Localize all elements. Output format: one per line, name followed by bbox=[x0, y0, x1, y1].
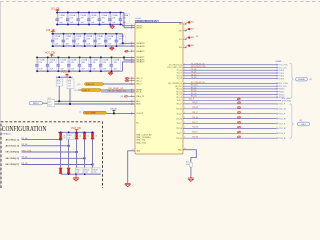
wire column bbox=[92, 139, 94, 167]
wire GND left bbox=[128, 151, 135, 183]
power 1V1_CB bbox=[56, 9, 60, 12]
capacitor C126A bbox=[99, 57, 103, 71]
svg-text:10k: 10k bbox=[95, 136, 98, 138]
wire TXD1 bbox=[183, 72, 278, 74]
junction bbox=[116, 45, 118, 47]
ground left GND pin bbox=[125, 183, 131, 187]
junction bbox=[123, 57, 125, 59]
tag TD1_P bbox=[277, 113, 286, 116]
pin stub LED_1 bbox=[125, 77, 136, 79]
tag RXD1 bbox=[277, 91, 286, 94]
junction bbox=[68, 173, 70, 175]
resistor pull-down 2 bbox=[67, 168, 70, 174]
wire to U100 VDDIO bbox=[124, 13, 135, 28]
capacitor C120A bbox=[35, 57, 39, 71]
svg-text:TD3_M: TD3_M bbox=[192, 137, 198, 139]
DNI mark bbox=[125, 50, 128, 52]
capacitor C106A bbox=[119, 13, 123, 25]
pin stub bbox=[131, 27, 136, 29]
bus brace RGMII bbox=[290, 63, 294, 98]
power flag bbox=[188, 37, 190, 39]
wire config bottom rail bbox=[61, 173, 101, 175]
svg-text:RXD0: RXD0 bbox=[279, 89, 285, 91]
wire rail row1 top bbox=[56, 12, 124, 14]
svg-text:XTAL_TXD: XTAL_TXD bbox=[136, 139, 146, 142]
svg-text:(47): (47) bbox=[74, 90, 78, 92]
wire MDC to U100 bbox=[55, 100, 135, 102]
junction bbox=[84, 33, 86, 35]
svg-text:TD2_M: TD2_M bbox=[192, 127, 198, 129]
junction bbox=[47, 57, 49, 59]
junction bbox=[58, 70, 60, 72]
tag TX_CTRL bbox=[277, 64, 289, 67]
capacitor C122A bbox=[57, 57, 61, 71]
svg-text:RX_CLK: RX_CLK bbox=[279, 86, 287, 88]
svg-text:RX_D0: RX_D0 bbox=[176, 89, 182, 91]
svg-text:22.0: 22.0 bbox=[48, 104, 51, 106]
resistor R114 bbox=[186, 162, 193, 167]
svg-text:GTX_CLK/TX_CLK: GTX_CLK/TX_CLK bbox=[191, 66, 206, 68]
junction bbox=[84, 173, 86, 175]
power flag bbox=[188, 21, 190, 23]
wire TXD2 bbox=[183, 75, 278, 77]
pin stub bbox=[131, 83, 136, 85]
wire bbox=[42, 102, 47, 104]
wire pullup MDIO bbox=[69, 89, 71, 104]
svg-text:TX_D3: TX_D3 bbox=[177, 78, 182, 80]
svg-text:MODE[0]: MODE[0] bbox=[6, 152, 20, 154]
junction bbox=[92, 164, 94, 166]
svg-text:2V5: 2V5 bbox=[179, 30, 182, 32]
svg-text:TD2_M: TD2_M bbox=[279, 128, 286, 130]
wire INT/PWDN bbox=[101, 91, 135, 93]
power 1V8_CB bbox=[51, 31, 55, 34]
svg-text:Y100 25MHz: Y100 25MHz bbox=[85, 113, 97, 115]
wire TD3_M bbox=[183, 137, 277, 139]
pin stub bbox=[131, 59, 136, 61]
capacitor C124A bbox=[78, 57, 82, 71]
capacitor C102A bbox=[77, 13, 81, 25]
wire pullup MDC bbox=[58, 86, 60, 101]
svg-text:XTAL_TX00: XTAL_TX00 bbox=[136, 141, 146, 144]
DNI mark bbox=[238, 121, 241, 123]
tag TXD2 bbox=[277, 75, 286, 78]
wire column bbox=[60, 139, 62, 167]
svg-text:LED_2: LED_2 bbox=[136, 80, 142, 82]
svg-text:TXD2: TXD2 bbox=[279, 76, 285, 78]
svg-text:ADDR0[1:0]: ADDR0[1:0] bbox=[6, 138, 20, 141]
wire TD2_M bbox=[183, 127, 277, 129]
svg-text:1.0k: 1.0k bbox=[85, 172, 88, 174]
junction bbox=[52, 33, 54, 35]
svg-text:TD3_M: TD3_M bbox=[279, 138, 286, 140]
svg-text:TD1_P: TD1_P bbox=[279, 114, 286, 116]
junction bbox=[92, 132, 94, 134]
svg-text:TD1_M: TD1_M bbox=[192, 117, 198, 119]
capacitor C121A bbox=[46, 57, 50, 71]
junction bbox=[94, 33, 96, 35]
svg-text:1V1_CB: 1V1_CB bbox=[51, 8, 60, 11]
pin stub power bbox=[183, 30, 187, 32]
capacitor C100A bbox=[55, 13, 59, 25]
junction bbox=[56, 24, 58, 26]
junction bbox=[78, 24, 80, 26]
svg-text:TX_D1: TX_D1 bbox=[177, 73, 182, 75]
svg-text:(ETH_GND): (ETH_GND) bbox=[282, 101, 292, 103]
capacitor C116A bbox=[115, 34, 119, 46]
ground GND pin bbox=[188, 177, 194, 182]
wire rail row2 bottom bbox=[51, 45, 135, 47]
junction bbox=[67, 12, 69, 14]
resistor R102 bbox=[85, 83, 104, 86]
tag TD2_M bbox=[277, 128, 286, 131]
port bbox=[297, 122, 309, 126]
junction bbox=[75, 173, 77, 175]
svg-text:1V8: 1V8 bbox=[191, 22, 194, 24]
svg-text:TX_D0: TX_D0 bbox=[177, 70, 182, 72]
junction bbox=[84, 132, 86, 134]
tag TXD0 bbox=[277, 69, 286, 72]
svg-text:TX_CTRL/TX_D0: TX_CTRL/TX_D0 bbox=[169, 64, 182, 66]
junction bbox=[79, 57, 81, 59]
junction bbox=[63, 45, 65, 47]
svg-text:RX_D3: RX_D3 bbox=[191, 96, 197, 98]
wire RXD2 bbox=[183, 94, 278, 96]
resistor pull-up 4 bbox=[83, 132, 86, 139]
tag TD0_P bbox=[277, 103, 286, 106]
svg-text:TD4_P: TD4_P bbox=[177, 100, 183, 102]
op IC U100 body bbox=[135, 22, 183, 154]
tag TD3_P bbox=[277, 132, 286, 135]
svg-text:TD1_P: TD1_P bbox=[192, 112, 198, 114]
capacitor C115A bbox=[104, 34, 108, 46]
svg-text:22.0: 22.0 bbox=[48, 101, 51, 103]
junction bbox=[79, 70, 81, 72]
svg-text:1V8: 1V8 bbox=[191, 45, 194, 47]
svg-text:RXD2: RXD2 bbox=[279, 94, 285, 96]
pin stub bbox=[131, 89, 136, 91]
wire to U100 VDDA2P5 bbox=[124, 57, 135, 60]
junction bbox=[100, 57, 102, 59]
svg-text:RGMII: RGMII bbox=[276, 61, 282, 63]
wire RXD3 bbox=[183, 96, 278, 98]
capacitor C114A bbox=[93, 34, 97, 46]
DNI mark bbox=[238, 107, 241, 109]
svg-text:RX_D1: RX_D1 bbox=[191, 90, 197, 92]
page border left bbox=[0, 1, 2, 188]
DNI mark bbox=[126, 77, 129, 79]
svg-text:TD4_P: TD4_P bbox=[189, 99, 195, 101]
tag TXD3 bbox=[277, 78, 286, 81]
svg-text:TX_CTRL: TX_CTRL bbox=[279, 65, 289, 67]
svg-text:MDI: MDI bbox=[301, 124, 305, 126]
wire to U100 VDDA1P8 bbox=[123, 34, 135, 44]
wire rail row3 bottom bbox=[37, 70, 123, 72]
svg-text:CLKOUT: CLKOUT bbox=[136, 113, 144, 115]
svg-text:1V8_CB: 1V8_CB bbox=[46, 29, 55, 32]
wire TXD0 bbox=[183, 69, 278, 71]
svg-text:1V8: 1V8 bbox=[191, 37, 194, 39]
svg-text:TD1_M: TD1_M bbox=[279, 118, 286, 120]
resistor R103 bbox=[81, 89, 101, 92]
junction bbox=[58, 57, 60, 59]
junction bbox=[52, 45, 54, 47]
svg-text:1V8: 1V8 bbox=[179, 24, 182, 26]
wire config top rail bbox=[58, 131, 93, 133]
svg-text:RX_CTRL/RX_D0: RX_CTRL/RX_D0 bbox=[168, 83, 182, 85]
wire TD1_M bbox=[183, 118, 277, 120]
power flag bbox=[188, 28, 190, 30]
svg-text:TX_D0: TX_D0 bbox=[191, 69, 196, 71]
svg-text:RGMII: RGMII bbox=[298, 79, 305, 81]
capacitor C127A bbox=[110, 57, 114, 71]
DNP pull-up 2 bbox=[66, 134, 74, 140]
svg-text:TD3_P: TD3_P bbox=[279, 133, 286, 135]
svg-text:10k: 10k bbox=[87, 136, 90, 138]
svg-text:10k: 10k bbox=[79, 136, 82, 138]
junction bbox=[36, 57, 38, 59]
DNI mark bbox=[238, 131, 241, 133]
wire rail row2 top bbox=[51, 33, 123, 35]
junction bbox=[88, 24, 90, 26]
capacitor C111A bbox=[62, 34, 66, 46]
junction bbox=[84, 157, 86, 159]
wire TD0_P bbox=[183, 103, 277, 105]
DNI mark bbox=[238, 136, 241, 138]
wire TXD3 bbox=[183, 78, 278, 80]
svg-text:TD1_P: TD1_P bbox=[177, 113, 183, 115]
tag TD0_M bbox=[277, 108, 286, 111]
svg-text:3V3: 3V3 bbox=[179, 47, 182, 49]
svg-text:TX_CTRL/TX_D0: TX_CTRL/TX_D0 bbox=[191, 63, 204, 65]
junction bbox=[84, 45, 86, 47]
svg-text:VDDA2P5: VDDA2P5 bbox=[136, 50, 144, 53]
svg-text:TD2_P: TD2_P bbox=[177, 123, 183, 125]
resistor pull-up 1 bbox=[59, 132, 62, 139]
svg-text:RXD1: RXD1 bbox=[279, 92, 285, 94]
svg-text:MODE[1]: MODE[1] bbox=[6, 158, 20, 160]
svg-text:1V8: 1V8 bbox=[191, 28, 194, 30]
wire TX_CTRL bbox=[183, 64, 278, 66]
capacitor C105A bbox=[108, 13, 112, 25]
svg-text:VDDA1P8: VDDA1P8 bbox=[136, 45, 144, 48]
DNI mark bbox=[238, 102, 241, 104]
svg-text:TX_D2: TX_D2 bbox=[177, 75, 182, 77]
wire TD0_M bbox=[183, 108, 277, 110]
capacitor C103A bbox=[87, 13, 91, 25]
wire to U100 VDDA2P5 bbox=[123, 62, 136, 71]
DNI mark bbox=[126, 80, 129, 82]
junction bbox=[89, 70, 91, 72]
wire TD3_P bbox=[183, 132, 277, 134]
tag TD2_P bbox=[277, 123, 286, 126]
pin stub bbox=[131, 77, 136, 79]
svg-text:TD2_P: TD2_P bbox=[279, 123, 286, 125]
svg-text:MDIO: MDIO bbox=[33, 103, 39, 105]
junction bbox=[76, 151, 78, 153]
junction bbox=[73, 45, 75, 47]
svg-text:MDC: MDC bbox=[136, 101, 141, 103]
tag RXD2 bbox=[277, 94, 286, 97]
junction bbox=[100, 70, 102, 72]
port bbox=[296, 78, 308, 82]
pin stub bbox=[131, 112, 136, 114]
wire RESET_B bbox=[101, 89, 135, 91]
svg-text:TXD0: TXD0 bbox=[279, 70, 285, 72]
svg-text:1V1: 1V1 bbox=[179, 39, 182, 41]
wire rail row1 bottom bbox=[56, 24, 123, 26]
junction bbox=[58, 100, 60, 102]
power flag bbox=[65, 74, 69, 77]
svg-text:RX_D0: RX_D0 bbox=[191, 87, 197, 89]
wire TD1_P bbox=[183, 113, 277, 115]
wire bbox=[190, 167, 192, 177]
wire LED_0 bbox=[104, 83, 136, 85]
wire column bbox=[84, 139, 86, 167]
capacitor C125A bbox=[88, 57, 92, 71]
svg-text:ADDR1[1:0]: ADDR1[1:0] bbox=[6, 145, 20, 148]
junction bbox=[105, 33, 107, 35]
svg-text:U 100: U 100 bbox=[136, 18, 141, 20]
tag TD1_M bbox=[277, 118, 286, 121]
junction bbox=[109, 12, 111, 14]
configuration box border bbox=[1, 122, 103, 188]
DNI mark bbox=[238, 111, 241, 113]
wire TD4 bbox=[183, 99, 281, 101]
DNI mark bbox=[238, 116, 241, 118]
svg-text:RX_CTRL/RX_D0: RX_CTRL/RX_D0 bbox=[191, 82, 205, 84]
pin stub bbox=[131, 80, 136, 82]
power flag bbox=[188, 45, 190, 47]
svg-text:VDDA2P5: VDDA2P5 bbox=[136, 61, 144, 64]
svg-text:RX_CLK: RX_CLK bbox=[175, 86, 182, 88]
tag RXD0 bbox=[277, 88, 286, 91]
svg-text:RX_D3: RX_D3 bbox=[176, 97, 182, 99]
svg-text:TD1_M: TD1_M bbox=[176, 118, 182, 120]
svg-text:TD0_M: TD0_M bbox=[279, 109, 286, 111]
junction bbox=[89, 57, 91, 59]
svg-text:VDDA2P5: VDDA2P5 bbox=[136, 56, 144, 59]
capacitor C110A bbox=[51, 34, 55, 46]
power VCC_CB pullup rail bbox=[56, 76, 73, 78]
wire RX_CLK bbox=[183, 85, 278, 87]
junction bbox=[68, 57, 70, 59]
capacitor C112A bbox=[72, 34, 76, 46]
junction bbox=[94, 45, 96, 47]
svg-text:MODE[2]: MODE[2] bbox=[6, 164, 20, 166]
svg-text:CONFIGURATION: CONFIGURATION bbox=[2, 124, 47, 133]
tag TD3_M bbox=[277, 137, 286, 140]
pin stub bbox=[131, 50, 136, 52]
svg-text:TX_D2: TX_D2 bbox=[191, 74, 196, 76]
svg-text:XTAL_CLK/TX_EN: XTAL_CLK/TX_EN bbox=[136, 133, 152, 136]
svg-text:TXD3: TXD3 bbox=[279, 78, 285, 80]
wire bbox=[78, 89, 81, 91]
junction bbox=[56, 12, 58, 14]
pin stub LED_2 bbox=[125, 80, 136, 82]
junction bbox=[36, 70, 38, 72]
junction bbox=[60, 132, 62, 134]
svg-text:RX_D2: RX_D2 bbox=[191, 93, 197, 95]
junction bbox=[122, 42, 124, 44]
capacitor C123A bbox=[67, 57, 71, 71]
pin stub bbox=[131, 100, 136, 102]
svg-text:64: 64 bbox=[132, 149, 134, 151]
svg-text:1.0k: 1.0k bbox=[57, 83, 60, 85]
resistor pull-down 1 bbox=[59, 168, 62, 174]
svg-text:VDDIO: VDDIO bbox=[136, 27, 142, 29]
tag RX_CTRL bbox=[277, 83, 290, 86]
page border top bbox=[0, 1, 320, 3]
junction bbox=[47, 70, 49, 72]
svg-text:GTX_CLK/TX_CLK: GTX_CLK/TX_CLK bbox=[167, 67, 182, 69]
svg-text:TX_CLK: TX_CLK bbox=[279, 67, 287, 69]
junction bbox=[120, 12, 122, 14]
tag TXD1 bbox=[277, 72, 286, 75]
junction bbox=[63, 33, 65, 35]
ground config bbox=[73, 174, 79, 181]
pin stub bbox=[131, 103, 136, 105]
junction bbox=[99, 12, 101, 14]
pin stub power bbox=[183, 23, 187, 25]
svg-text:JTAG_TX: JTAG_TX bbox=[136, 95, 145, 98]
DNI mark bbox=[125, 95, 128, 97]
junction bbox=[78, 12, 80, 14]
DNP pull-down 3 bbox=[75, 168, 83, 174]
junction bbox=[68, 132, 70, 134]
wire TD2_P bbox=[183, 123, 277, 125]
wire CLK to U100 bbox=[106, 112, 135, 114]
wire TX_CLK bbox=[183, 67, 278, 69]
svg-text:4.7k: 4.7k bbox=[63, 135, 66, 137]
svg-text:1.0k: 1.0k bbox=[76, 172, 79, 174]
svg-text:RX_CTRL: RX_CTRL bbox=[279, 83, 289, 85]
wire column bbox=[68, 139, 70, 167]
svg-text:TD0_P: TD0_P bbox=[192, 102, 198, 104]
svg-text:(R): (R) bbox=[121, 96, 124, 98]
DNI mark bbox=[238, 126, 241, 128]
wire to U100 VDDIO bbox=[123, 25, 136, 26]
pin stub bbox=[131, 42, 136, 44]
svg-text:1.0k: 1.0k bbox=[186, 164, 189, 166]
junction bbox=[116, 33, 118, 35]
junction bbox=[120, 24, 122, 26]
junction bbox=[58, 76, 60, 78]
svg-text:TD0_P: TD0_P bbox=[177, 104, 183, 106]
svg-text:R103 47: R103 47 bbox=[83, 90, 91, 92]
pin stub bbox=[131, 61, 136, 63]
resistor pull-up 5 bbox=[91, 132, 94, 139]
svg-text:(R): (R) bbox=[196, 36, 199, 38]
DNI mark bbox=[237, 98, 240, 100]
wire RXD1 bbox=[183, 91, 278, 93]
pin stub bbox=[131, 91, 136, 93]
junction bbox=[60, 139, 62, 141]
junction bbox=[67, 24, 69, 26]
pin stub bbox=[131, 95, 136, 97]
junction bbox=[69, 76, 71, 78]
resistor RN1A bbox=[56, 79, 63, 86]
resistor R1C 22.0 bbox=[48, 98, 55, 107]
svg-text:TX_D3: TX_D3 bbox=[191, 77, 196, 79]
svg-text:VCC_CB: VCC_CB bbox=[61, 71, 71, 74]
ground row2 bbox=[110, 46, 114, 50]
svg-text:MDIO: MDIO bbox=[136, 104, 141, 106]
svg-text:LED_0: LED_0 bbox=[136, 84, 142, 86]
ground row1 bbox=[110, 25, 114, 29]
junction bbox=[111, 57, 113, 59]
power VCC_CB row3 bbox=[50, 54, 54, 57]
